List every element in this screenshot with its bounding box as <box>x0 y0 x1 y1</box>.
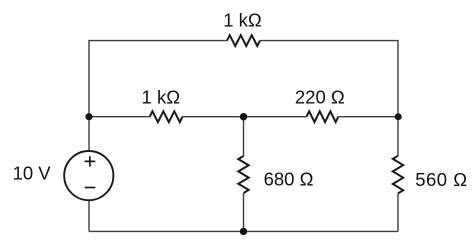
resistor R2 1 kOhm zigzag <box>150 111 183 122</box>
voltage source plus sign <box>85 156 96 166</box>
node D junction dot <box>240 228 247 235</box>
resistor R4 680 Ohm zigzag <box>238 156 248 193</box>
wire: middle vertical R4 to bottom node D <box>243 193 245 231</box>
node C junction dot <box>395 113 402 120</box>
wire: right vertical node C to R5 <box>397 117 399 156</box>
svg-text:10 V: 10 V <box>13 163 52 184</box>
svg-text:1 kΩ: 1 kΩ <box>142 86 181 107</box>
svg-text:1 kΩ: 1 kΩ <box>223 9 262 30</box>
voltage source V1 circle <box>64 151 113 200</box>
wire: middle rail node B to R3 <box>244 116 307 118</box>
node A junction dot <box>85 113 92 120</box>
wire: middle rail R3 to node C <box>338 116 398 118</box>
wire: middle rail node A to R2 <box>89 116 150 118</box>
wire: right vertical R5 to bottom corner <box>397 193 399 231</box>
svg-text:680 Ω: 680 Ω <box>264 169 314 190</box>
wire: middle rail R2 to node B <box>183 116 244 118</box>
voltage source minus sign <box>85 187 96 189</box>
wire: top rail right segment <box>260 41 398 117</box>
wire: left vertical node A to source top <box>88 117 90 152</box>
wire: top rail left segment <box>89 41 227 117</box>
resistor R5 560 Ohm zigzag <box>393 156 403 194</box>
svg-text:220 Ω: 220 Ω <box>295 86 345 107</box>
svg-text:560 Ω: 560 Ω <box>415 169 467 190</box>
resistor R3 220 Ohm zigzag <box>307 111 339 122</box>
wire: left vertical source bottom to bottom corner <box>88 200 90 231</box>
node B junction dot <box>240 113 247 120</box>
resistor R top 1 kOhm zigzag <box>227 35 260 46</box>
wire: middle vertical node B to R4 <box>243 117 245 156</box>
wire: bottom rail <box>89 230 398 232</box>
